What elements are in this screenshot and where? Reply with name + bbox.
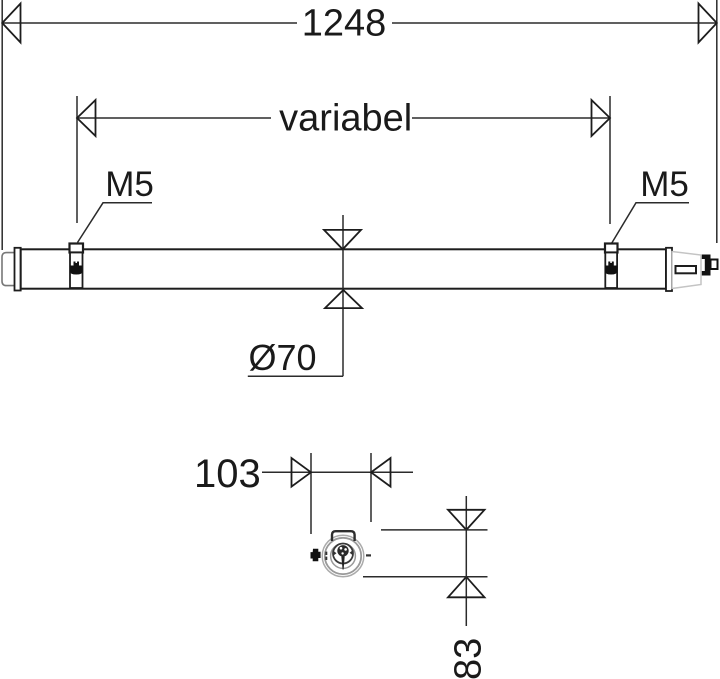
dimension line 1248 right segment xyxy=(392,22,717,24)
arrowhead 103 left xyxy=(292,458,312,487)
arrowhead 1248 left xyxy=(2,4,20,43)
svg-text:103: 103 xyxy=(194,452,261,496)
connector right tick xyxy=(366,554,371,556)
arrowhead 83 bottom xyxy=(448,577,485,598)
connector inner ring dark xyxy=(333,544,353,564)
arrowhead variabel left xyxy=(77,100,96,136)
dimension line variabel left segment xyxy=(77,117,271,119)
connector side wedge right xyxy=(350,550,353,555)
svg-text:Ø70: Ø70 xyxy=(248,337,316,378)
svg-text:M5: M5 xyxy=(640,165,689,204)
right connector latch (black) xyxy=(702,255,711,276)
arrowhead diameter bottom xyxy=(325,290,362,308)
extension line right (variabel) xyxy=(609,96,611,224)
tube right end housing xyxy=(672,252,701,289)
dimension line variabel right segment xyxy=(412,117,610,119)
svg-text:1248: 1248 xyxy=(302,3,387,45)
connector stem xyxy=(341,557,344,570)
clamp right bolt xyxy=(605,262,617,275)
dimension line 1248 left segment xyxy=(2,22,297,24)
extension line right (1248) xyxy=(716,0,718,243)
svg-text:variabel: variabel xyxy=(279,98,412,140)
connector bezel circle xyxy=(325,538,361,574)
clamp left body xyxy=(70,253,83,289)
extension line 83 top xyxy=(381,529,488,531)
diameter center line xyxy=(342,215,344,376)
arrowhead 83 top xyxy=(448,510,485,530)
extension line left (1248) xyxy=(1,0,3,250)
svg-text:83: 83 xyxy=(447,638,489,679)
tube left end cap xyxy=(2,253,17,286)
connector pin face xyxy=(337,545,348,556)
clamp left tab xyxy=(70,244,84,253)
connector pin hole 1 xyxy=(340,547,343,550)
clamp left bolt xyxy=(70,262,83,275)
arrowhead 1248 right xyxy=(699,4,717,43)
dimension line 83 vertical xyxy=(465,496,467,626)
connector inner ring light xyxy=(331,544,356,569)
right housing slot xyxy=(676,266,697,273)
connector outer circle xyxy=(322,535,364,577)
connector top tab xyxy=(332,531,355,541)
leader line diameter xyxy=(248,375,343,377)
connector side wedge left xyxy=(333,551,336,556)
extension line 103 right xyxy=(370,453,372,522)
connector pin hole 2 xyxy=(344,548,347,551)
tube left collar xyxy=(15,248,21,291)
tube right collar xyxy=(666,248,672,291)
connector lever (black, left) xyxy=(310,549,320,562)
arrowhead variabel right xyxy=(592,100,611,136)
clamp right tab xyxy=(605,244,618,253)
arrowhead 103 right xyxy=(371,458,391,487)
leader line M5 right xyxy=(612,203,690,244)
leader line M5 left xyxy=(78,203,153,243)
right connector plug square xyxy=(711,260,718,270)
svg-text:M5: M5 xyxy=(105,165,154,204)
extension line left (variabel) xyxy=(76,96,78,223)
dimension line 103 xyxy=(262,471,413,473)
extension line 83 bottom xyxy=(363,576,488,578)
connector left tick marks xyxy=(325,552,327,555)
connector pin hole 3 xyxy=(341,552,343,554)
extension line 103 left xyxy=(310,453,312,534)
clamp right body xyxy=(605,253,617,289)
arrowhead diameter top xyxy=(324,230,361,249)
tube body xyxy=(21,249,666,288)
